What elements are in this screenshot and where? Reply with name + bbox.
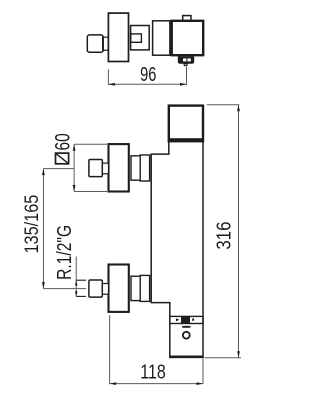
svg-text:118: 118: [140, 361, 166, 383]
svg-text:135/165: 135/165: [21, 195, 43, 254]
svg-text:96: 96: [140, 63, 156, 86]
svg-text:60: 60: [50, 133, 74, 150]
svg-text:316: 316: [212, 222, 235, 250]
svg-text:R.1/2"G: R.1/2"G: [53, 225, 75, 280]
